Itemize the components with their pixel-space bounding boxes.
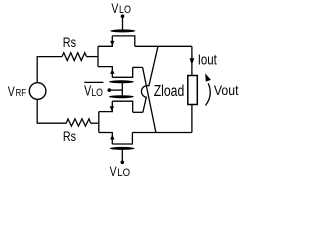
transistor M4 gate bar bbox=[110, 147, 135, 150]
resistor Rs (top) bbox=[62, 53, 87, 61]
svg-text:V: V bbox=[8, 83, 15, 99]
node VLO bottom dot bbox=[120, 160, 124, 164]
wire VLObar stub bbox=[109, 89, 122, 91]
transistor M2 source wire bbox=[98, 67, 112, 78]
label VLO-bar bbox=[84, 82, 103, 99]
svg-text:LO: LO bbox=[91, 87, 103, 99]
transistor M2 channel bbox=[112, 67, 132, 77]
transistor M2 gate bar bbox=[109, 80, 134, 83]
wire VRF top lead bbox=[37, 57, 62, 83]
svg-text:LO: LO bbox=[117, 167, 130, 179]
arrow Iout bbox=[190, 58, 195, 65]
transistor M3 channel bbox=[112, 101, 132, 112]
resistor Rs (bottom) bbox=[66, 119, 91, 126]
node VLObar dot bbox=[107, 88, 111, 92]
wire output rail top bbox=[191, 46, 193, 75]
transistor M3 source arrow bbox=[110, 106, 114, 111]
transistor M2 source arrow bbox=[110, 69, 114, 74]
node A vertical (top RF node) bbox=[97, 46, 99, 66]
svg-text:V: V bbox=[84, 84, 91, 100]
transistor M3 gate bar bbox=[109, 95, 134, 98]
transistor M4 drain wire to bottom rail bbox=[132, 132, 192, 134]
svg-text:Vout: Vout bbox=[214, 82, 239, 98]
source VRF bbox=[29, 83, 46, 100]
wire crossing: M2 drain to bottom rail (diagonal) bbox=[143, 67, 156, 132]
transistor M1 gate lead bbox=[122, 17, 124, 30]
load Zload rectangle bbox=[188, 76, 198, 105]
arrow Vout arc bbox=[206, 83, 211, 105]
gate lead shared VLO-bar node bbox=[121, 81, 123, 99]
wire crossing: M3 drain to top rail with hop bbox=[141, 46, 158, 112]
svg-text:Rs: Rs bbox=[63, 34, 76, 50]
transistor M1 drain wire to output rail bbox=[135, 45, 192, 47]
transistor M4 gate lead bbox=[121, 149, 123, 161]
wire Rs top to node bbox=[87, 56, 99, 58]
svg-text:Zload: Zload bbox=[154, 83, 185, 100]
transistor M4 source wire bbox=[99, 133, 113, 145]
wire VRF bottom lead bbox=[37, 99, 66, 123]
label VRF bbox=[8, 83, 26, 99]
svg-text:RF: RF bbox=[16, 88, 27, 99]
node B vertical (bottom RF node) bbox=[98, 112, 100, 133]
transistor M2 drain wire bbox=[133, 66, 143, 68]
transistor M4 source arrow bbox=[110, 135, 114, 140]
wire output rail bottom bbox=[191, 105, 193, 133]
svg-text:LO: LO bbox=[119, 4, 131, 16]
svg-text:Iout: Iout bbox=[198, 53, 217, 69]
transistor M1 gate bar bbox=[110, 29, 135, 32]
svg-text:V: V bbox=[110, 163, 117, 179]
svg-text:Rs: Rs bbox=[63, 128, 76, 144]
transistor M3 drain wire bbox=[133, 111, 143, 113]
wire node A to M1 source bbox=[98, 36, 112, 46]
wire Rs bottom to node bbox=[91, 122, 99, 124]
transistor M4 channel bbox=[112, 133, 132, 145]
node VLO top dot bbox=[121, 14, 125, 18]
svg-text:V: V bbox=[111, 0, 118, 16]
label VLO (bottom) bbox=[110, 163, 131, 179]
transistor M1 source arrow bbox=[110, 41, 114, 46]
label VLO (top) bbox=[111, 0, 131, 16]
transistor M3 source lead bbox=[99, 101, 113, 111]
transistor M1 channel bbox=[112, 36, 135, 46]
